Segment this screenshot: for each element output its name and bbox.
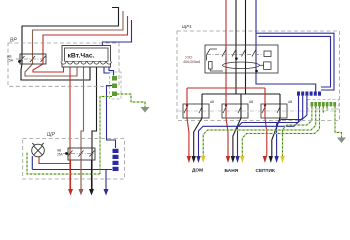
svg-text:40А/300мА: 40А/300мА <box>183 60 201 64</box>
svg-text:ДОМ: ДОМ <box>192 168 203 174</box>
svg-text:ЩР1: ЩР1 <box>182 24 192 29</box>
svg-text:ЩР: ЩР <box>47 132 56 138</box>
svg-text:БАНЯ: БАНЯ <box>225 168 239 174</box>
svg-text:СЕПТИК: СЕПТИК <box>256 168 275 174</box>
svg-text:25А: 25А <box>57 153 64 157</box>
svg-text:АВ: АВ <box>288 100 292 104</box>
svg-text:АВ: АВ <box>249 100 253 104</box>
svg-text:УЗО: УЗО <box>185 56 192 60</box>
svg-text:кВт.Час.: кВт.Час. <box>68 53 95 60</box>
svg-text:25А: 25А <box>7 59 14 63</box>
svg-text:АВ: АВ <box>210 100 214 104</box>
svg-text:ВР: ВР <box>10 38 17 44</box>
